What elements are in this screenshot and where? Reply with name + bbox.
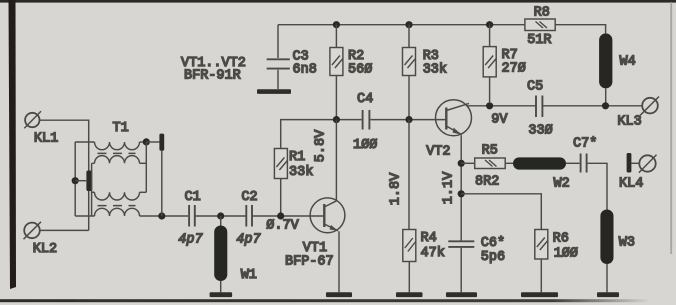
- resistor R6: [535, 230, 578, 293]
- junction dot (R2 / top rail): [333, 21, 340, 28]
- wire: R6 branch: [461, 194, 541, 230]
- junction dot (T1 stub): [158, 212, 165, 219]
- terminal KL2: [24, 222, 58, 257]
- terminal KL4: [619, 155, 657, 192]
- wire: T1 mid-left vertical: [91, 163, 93, 216]
- resistor R2: [330, 25, 372, 120]
- junction dot (R2 / VT1 collector): [333, 116, 340, 123]
- ground (below R4): [396, 292, 423, 297]
- ground (below W1): [210, 292, 233, 297]
- top border line: [0, 0, 676, 3]
- svg-text:C7*: C7*: [573, 137, 597, 152]
- resistor R5: [461, 144, 505, 190]
- resistor R8: [525, 5, 555, 48]
- svg-text:W1: W1: [241, 268, 257, 283]
- terminal KL3: [617, 97, 659, 130]
- svg-text:R4: R4: [421, 231, 437, 246]
- right border line: [670, 2, 672, 254]
- svg-text:C1: C1: [185, 190, 201, 205]
- svg-text:1.8V: 1.8V: [389, 172, 404, 205]
- wire: stub down to C1 line: [161, 151, 163, 216]
- stub bar (KL4): [627, 153, 632, 173]
- junction dot (R3 / top rail): [405, 21, 412, 28]
- wire: VT1 collector: [335, 120, 337, 201]
- stub bar (T1 top): [159, 134, 164, 151]
- junction dot (R7 / top rail): [486, 21, 493, 28]
- svg-text:33Ø: 33Ø: [528, 124, 552, 139]
- svg-text:9V: 9V: [491, 113, 508, 128]
- ground (below C3): [257, 89, 291, 94]
- junction dot (R7 / 9V rail): [486, 102, 493, 109]
- resistor R3: [403, 25, 448, 120]
- svg-text:C4: C4: [357, 92, 373, 107]
- svg-text:C5: C5: [527, 80, 543, 95]
- node: 9V collector rail: [468, 105, 643, 107]
- svg-text:8R2: 8R2: [475, 175, 499, 190]
- stripline W1: [214, 216, 257, 292]
- svg-text:R8: R8: [534, 5, 550, 20]
- stripline W4: [599, 33, 636, 105]
- svg-text:1ØØ: 1ØØ: [554, 247, 578, 262]
- svg-text:BFP-67: BFP-67: [285, 255, 334, 270]
- svg-text:56Ø: 56Ø: [348, 63, 372, 78]
- wire: KL1 to T1: [40, 120, 89, 230]
- svg-text:KL4: KL4: [619, 177, 643, 192]
- capacitor C4: [353, 92, 377, 153]
- inductor T1 winding 2: [92, 156, 147, 164]
- wire: T1 left branch: [74, 142, 76, 216]
- junction dot (W4 / 9V rail): [602, 102, 609, 109]
- svg-text:VT2: VT2: [426, 145, 450, 160]
- capacitor C6: [448, 236, 505, 292]
- svg-text:KL3: KL3: [617, 115, 641, 130]
- wire: C1 to C2: [196, 215, 246, 217]
- wire: T1 secondary to C1: [140, 215, 189, 217]
- capacitor C5: [527, 80, 553, 139]
- svg-text:T1: T1: [113, 121, 129, 136]
- ground (below VT1): [326, 292, 352, 297]
- terminal KL1: [24, 111, 58, 146]
- svg-text:1.1V: 1.1V: [442, 171, 457, 204]
- capacitor C2: [236, 190, 261, 248]
- resistor R4: [403, 120, 445, 293]
- svg-text:R1: R1: [289, 150, 305, 165]
- junction dot (R6 branch): [458, 190, 465, 197]
- ground (below R6): [521, 292, 558, 297]
- svg-text:C2: C2: [241, 190, 257, 205]
- svg-text:W4: W4: [620, 55, 636, 70]
- transistor VT2: [426, 100, 471, 164]
- svg-text:5.8V: 5.8V: [314, 129, 329, 162]
- resistor R7: [483, 25, 526, 102]
- stripline W2: [505, 157, 570, 191]
- svg-text:W2: W2: [554, 177, 570, 192]
- svg-text:27Ø: 27Ø: [502, 62, 526, 77]
- svg-text:W3: W3: [619, 236, 635, 251]
- svg-text:5p6: 5p6: [481, 250, 505, 265]
- core dashes T1 lower: [98, 205, 136, 207]
- svg-text:R6: R6: [553, 232, 569, 247]
- ground (below C6): [446, 292, 477, 297]
- svg-text:4p7: 4p7: [236, 233, 261, 248]
- wire: T1 right vertical: [145, 142, 147, 192]
- svg-text:33k: 33k: [289, 165, 313, 180]
- svg-text:Ø.7V: Ø.7V: [266, 219, 299, 234]
- svg-text:R5: R5: [482, 144, 498, 159]
- wire: KL2 to T1: [40, 229, 89, 231]
- svg-text:51R: 51R: [527, 33, 551, 48]
- stub bar (T1 shield): [86, 171, 92, 192]
- wire: dot to stub: [146, 141, 159, 143]
- svg-text:KL1: KL1: [34, 132, 58, 147]
- bottom border line: [0, 299, 650, 302]
- junction dot (R5 branch): [458, 160, 465, 167]
- junction dot (R1 / VT1 base): [277, 212, 284, 219]
- svg-text:4p7: 4p7: [178, 233, 203, 248]
- junction dot (W1): [217, 212, 224, 219]
- svg-text:BFR-91R: BFR-91R: [184, 69, 241, 84]
- node: base rail (R1/R2/C4 wire): [281, 120, 447, 149]
- left border bar: [9, 0, 17, 289]
- svg-text:KL2: KL2: [33, 242, 57, 257]
- svg-text:47k: 47k: [421, 246, 445, 261]
- stripline W3: [600, 210, 635, 293]
- svg-text:C6*: C6*: [481, 236, 505, 251]
- inductor T1 winding 4: [75, 208, 139, 216]
- junction dot (R3 / R4 / VT2 base): [405, 116, 412, 123]
- wire: tap to shield bar: [75, 180, 86, 182]
- wire: base line C2 to VT1: [253, 215, 324, 217]
- svg-text:6n8: 6n8: [293, 63, 317, 78]
- capacitor C3: [267, 25, 317, 89]
- transistor VT1: [285, 198, 345, 292]
- capacitor C7: [566, 137, 607, 210]
- inductor T1 winding 3: [92, 192, 147, 200]
- resistor R1: [274, 149, 313, 217]
- svg-text:33k: 33k: [423, 63, 447, 78]
- svg-text:1ØØ: 1ØØ: [353, 138, 377, 153]
- capacitor C1: [178, 190, 203, 248]
- inductor T1 winding 1: [75, 142, 146, 150]
- junction dot (T1 top right): [143, 138, 150, 145]
- node: +9V top rail: [278, 25, 606, 34]
- core dashes T1 upper: [98, 152, 136, 154]
- junction dot (T1 tap): [72, 177, 79, 184]
- wire: VT2 emitter chain: [460, 163, 462, 240]
- ground (below W3): [597, 292, 619, 297]
